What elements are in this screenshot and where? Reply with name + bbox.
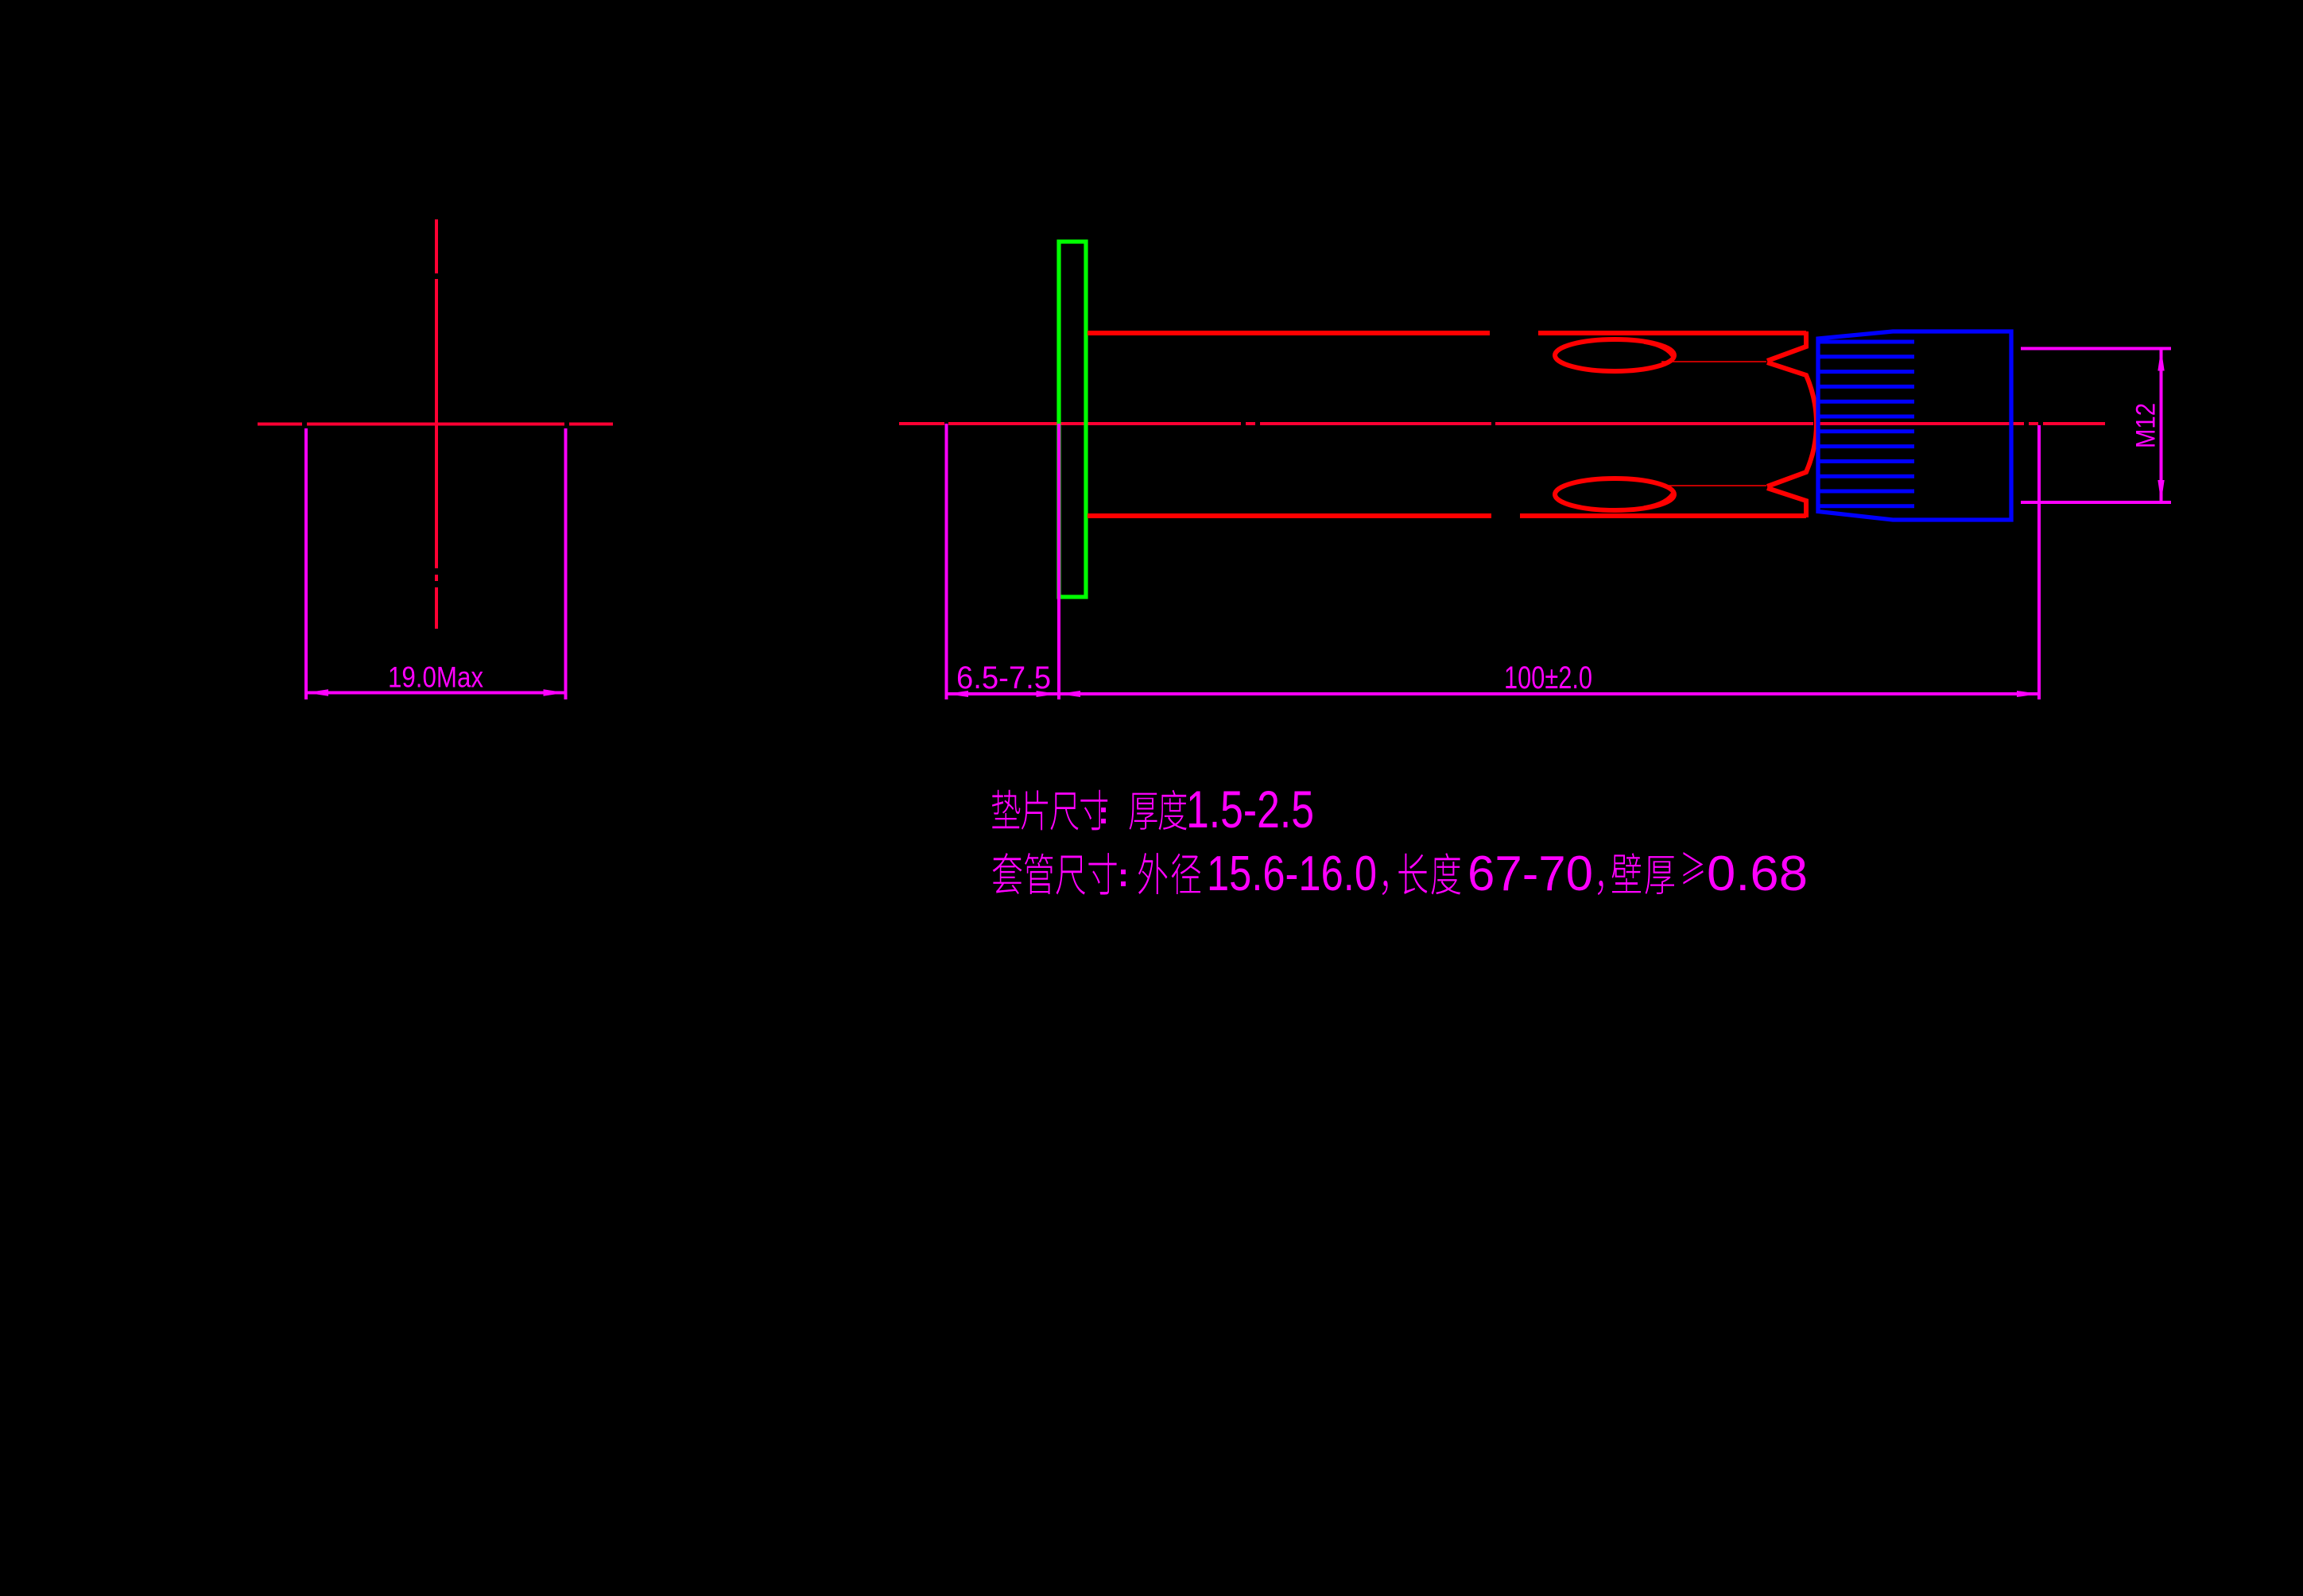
sleeve right end outline xyxy=(1767,331,1816,517)
sleeve tube top line xyxy=(1088,331,1806,335)
svg-text:100±2.0: 100±2.0 xyxy=(1504,660,1592,695)
dimension 19.0Max extension lines xyxy=(306,428,566,699)
left view: vertical centerline xyxy=(435,219,438,629)
sleeve tube bottom line xyxy=(1088,513,1806,518)
sleeve slot thin lines xyxy=(1661,362,1766,486)
dimension M12 extension lines xyxy=(2021,349,2171,503)
svg-text:6.5-7.5: 6.5-7.5 xyxy=(956,660,1051,695)
washer plate (green) xyxy=(1059,242,1086,597)
note line 2: sleeve size CJK text xyxy=(993,852,1704,895)
dimension 100+-2.0 right extension line xyxy=(2037,425,2041,699)
svg-text:0.68: 0.68 xyxy=(1707,846,1808,901)
note line 1: washer size CJK text xyxy=(992,790,1187,831)
left view: horizontal centerline xyxy=(258,423,613,426)
dimension 100+-2.0 line and arrows xyxy=(1058,692,2039,695)
right view: main centerline xyxy=(899,422,2105,425)
svg-text:1.5-2.5: 1.5-2.5 xyxy=(1186,780,1314,839)
knurled nut (blue) outline xyxy=(1818,331,2011,520)
svg-text:19.0Max: 19.0Max xyxy=(388,661,483,694)
svg-text:15.6-16.0: 15.6-16.0 xyxy=(1207,846,1377,901)
sleeve slot lower ellipse xyxy=(1555,478,1674,510)
dimension M12 line and arrows xyxy=(2160,349,2163,503)
svg-text:67-70: 67-70 xyxy=(1467,846,1593,901)
dimension 6.5-7.5 line and arrows xyxy=(947,692,1059,695)
dimension 6.5-7.5 extension lines xyxy=(947,424,1060,699)
sleeve slot upper ellipse xyxy=(1555,339,1674,371)
knurled nut hatch lines xyxy=(1818,342,1914,506)
svg-text:M12: M12 xyxy=(2131,403,2161,448)
dimension 19.0Max line and arrows xyxy=(306,691,566,695)
